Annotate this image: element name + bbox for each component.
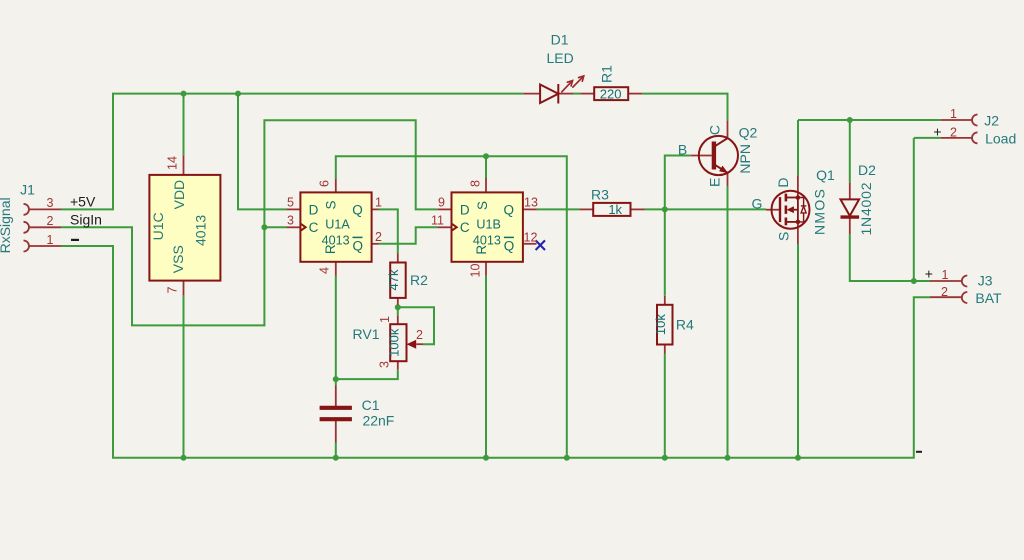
svg-text:RV1: RV1 — [353, 326, 380, 342]
svg-text:1: 1 — [47, 233, 54, 247]
svg-text:10: 10 — [469, 264, 483, 278]
svg-text:9: 9 — [438, 196, 445, 210]
svg-text:U1A: U1A — [325, 217, 350, 231]
svg-text:R1: R1 — [599, 65, 615, 83]
svg-text:6: 6 — [318, 180, 332, 187]
svg-text:+5V: +5V — [70, 193, 96, 209]
svg-text:U1B: U1B — [476, 217, 501, 231]
svg-text:J3: J3 — [978, 273, 993, 289]
svg-text:C: C — [460, 220, 470, 235]
svg-text:1: 1 — [950, 107, 957, 121]
svg-text:D: D — [309, 203, 319, 218]
svg-text:22nF: 22nF — [362, 413, 394, 429]
svg-text:2: 2 — [416, 328, 423, 342]
svg-text:3: 3 — [378, 361, 392, 368]
svg-text:7: 7 — [166, 286, 180, 293]
svg-text:+: + — [925, 265, 933, 281]
svg-text:Load: Load — [985, 131, 1016, 147]
svg-text:SigIn: SigIn — [70, 212, 102, 228]
svg-text:1: 1 — [378, 316, 392, 323]
svg-text:Q1: Q1 — [816, 167, 835, 183]
svg-text:C: C — [309, 220, 319, 235]
svg-text:4013: 4013 — [473, 233, 501, 247]
svg-text:3: 3 — [47, 196, 54, 210]
svg-text:Q: Q — [504, 202, 515, 217]
svg-text:47k: 47k — [386, 269, 401, 290]
svg-text:1: 1 — [942, 268, 949, 282]
svg-text:LED: LED — [546, 50, 573, 66]
svg-text:BAT: BAT — [975, 290, 1002, 306]
svg-text:12: 12 — [524, 230, 538, 244]
svg-text:10k: 10k — [653, 314, 668, 335]
svg-text:D2: D2 — [858, 162, 876, 178]
svg-text:1N4002: 1N4002 — [858, 182, 874, 236]
svg-text:S: S — [324, 200, 339, 209]
svg-text:1: 1 — [375, 196, 382, 210]
svg-text:NMOS: NMOS — [811, 188, 827, 235]
svg-text:D1: D1 — [551, 32, 569, 48]
svg-text:2: 2 — [375, 230, 382, 244]
svg-text:11: 11 — [431, 214, 444, 228]
svg-text:RxSignal: RxSignal — [0, 197, 13, 253]
svg-text:U1C: U1C — [150, 212, 166, 240]
svg-text:2: 2 — [950, 125, 957, 139]
svg-text:4: 4 — [318, 267, 332, 274]
svg-text:8: 8 — [469, 180, 483, 187]
svg-text:2: 2 — [941, 285, 948, 299]
svg-text:C1: C1 — [362, 397, 380, 413]
svg-text:G: G — [752, 195, 763, 211]
svg-text:Q2: Q2 — [739, 124, 758, 140]
svg-text:R4: R4 — [676, 316, 694, 332]
svg-text:14: 14 — [166, 156, 180, 170]
svg-text:VDD: VDD — [171, 180, 187, 210]
svg-text:R3: R3 — [591, 187, 609, 203]
svg-text:B: B — [678, 141, 687, 157]
svg-text:Q: Q — [504, 239, 515, 254]
svg-text:S: S — [475, 201, 490, 210]
svg-text:13: 13 — [524, 196, 538, 210]
svg-text:1k: 1k — [608, 202, 622, 217]
svg-text:100k: 100k — [386, 328, 401, 357]
svg-text:4013: 4013 — [193, 215, 209, 246]
svg-text:J1: J1 — [20, 182, 35, 198]
svg-text:+: + — [933, 124, 941, 140]
svg-text:D: D — [775, 177, 791, 187]
svg-text:R2: R2 — [410, 272, 428, 288]
svg-text:S: S — [776, 232, 792, 241]
svg-text:E: E — [706, 178, 722, 187]
svg-text:Q: Q — [352, 239, 363, 254]
svg-text:J2: J2 — [984, 113, 999, 129]
svg-text:5: 5 — [287, 196, 294, 210]
svg-text:NPN: NPN — [737, 144, 753, 174]
svg-text:C: C — [706, 125, 722, 135]
svg-text:220: 220 — [600, 87, 622, 102]
svg-text:D: D — [460, 203, 470, 218]
svg-text:VSS: VSS — [170, 245, 186, 273]
svg-text:4013: 4013 — [322, 233, 350, 247]
svg-text:3: 3 — [287, 214, 294, 228]
svg-text:2: 2 — [47, 214, 54, 228]
svg-text:Q: Q — [352, 202, 363, 217]
